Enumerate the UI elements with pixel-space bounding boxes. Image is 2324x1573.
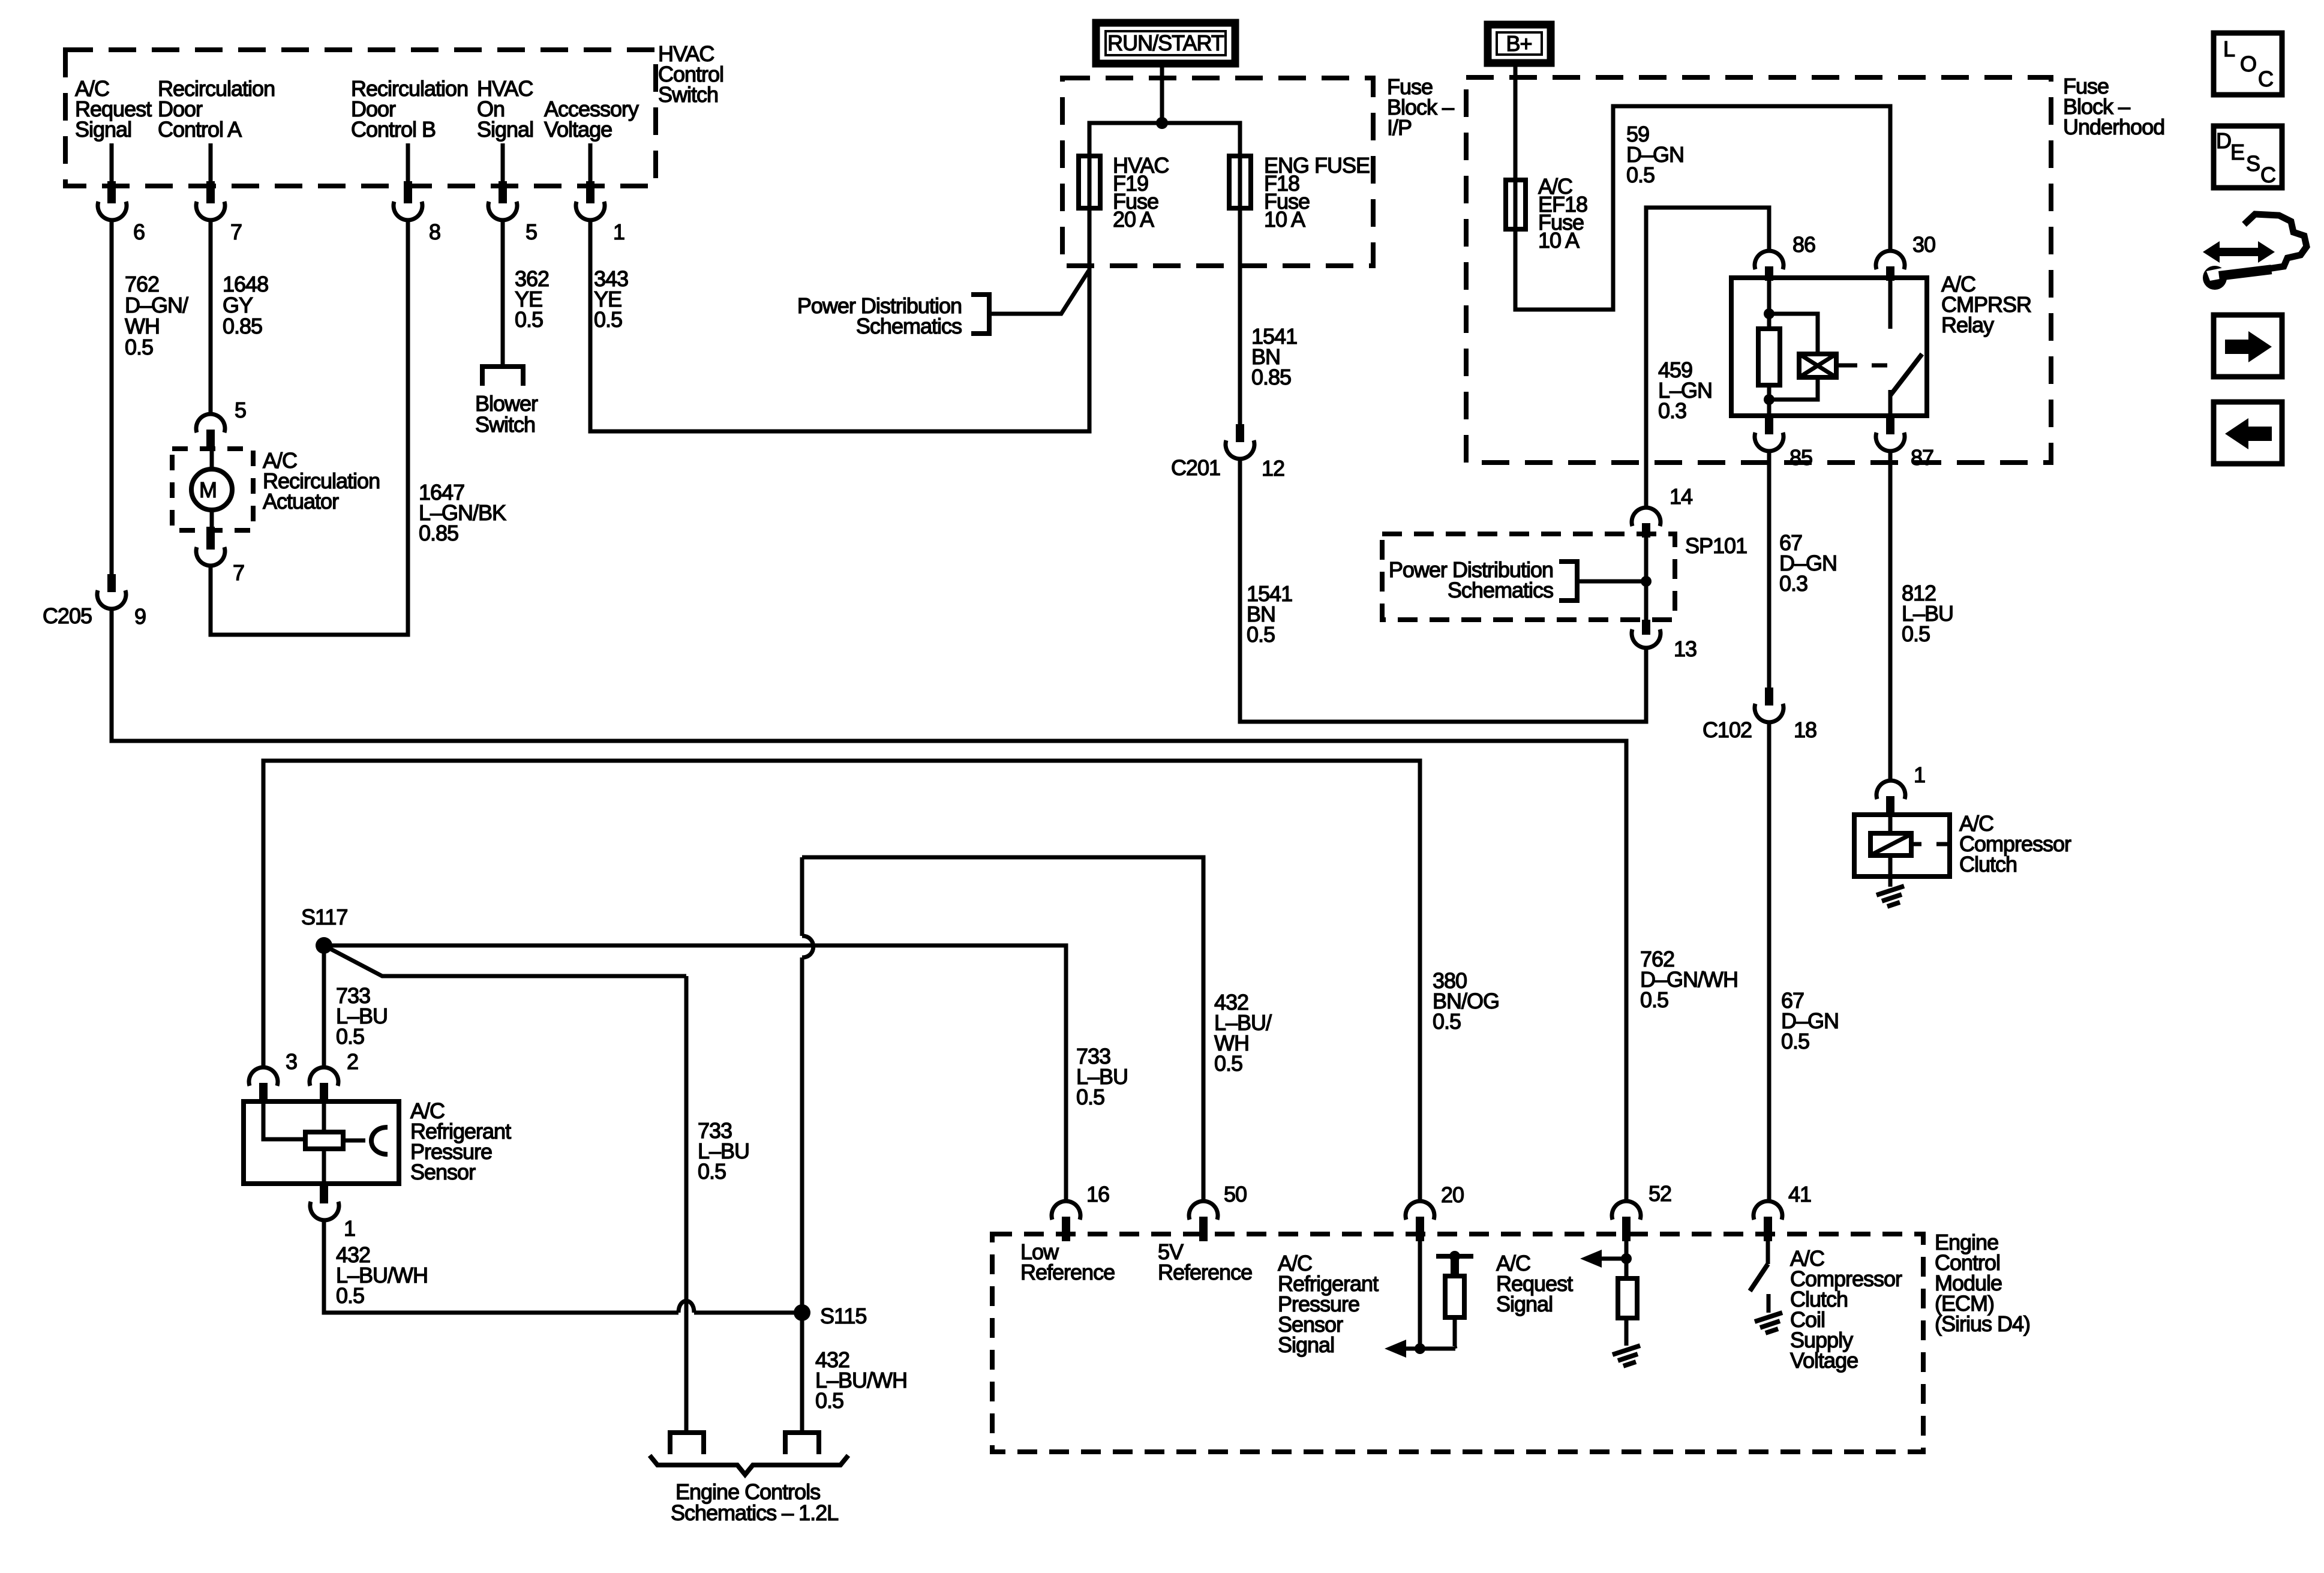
relay solenoid branch wires xyxy=(1769,314,1818,354)
sensor pressure port arc xyxy=(371,1127,388,1154)
svg-text:6: 6 xyxy=(133,220,145,244)
wire fuse feed bus xyxy=(1089,123,1240,156)
svg-text:C201: C201 xyxy=(1171,455,1220,480)
Fuse Block I/P dashed box xyxy=(1062,78,1373,266)
wire SP101 pin 14 xyxy=(1644,450,1649,507)
svg-text:7: 7 xyxy=(230,220,242,244)
SP101 dashed box xyxy=(1382,534,1675,620)
svg-text:1: 1 xyxy=(1914,763,1925,787)
svg-text:Voltage: Voltage xyxy=(1790,1348,1858,1373)
Fuse Block Underhood dashed box xyxy=(1466,77,2051,463)
svg-text:B+: B+ xyxy=(1506,31,1532,56)
wire 67 C102 to ECM pin 41 xyxy=(1767,721,1771,1200)
A/C Recirculation Actuator dashed box xyxy=(172,449,253,530)
svg-text:18: 18 xyxy=(1794,718,1816,742)
wire ENG FUSE F18 to C201 xyxy=(1238,208,1242,424)
svg-text:0.3: 0.3 xyxy=(1658,398,1686,423)
relay switch blade xyxy=(1890,354,1922,395)
ground clutch xyxy=(1876,886,1904,895)
svg-text:Reference: Reference xyxy=(1020,1260,1115,1284)
svg-text:0.5: 0.5 xyxy=(1781,1029,1809,1053)
connector relay pin 30 xyxy=(1876,251,1905,269)
svg-text:Control A: Control A xyxy=(158,117,242,142)
connector pin 8 xyxy=(404,181,412,203)
relay switch contact xyxy=(1888,278,1893,329)
svg-text:Relay: Relay xyxy=(1941,313,1994,337)
svg-text:0.5: 0.5 xyxy=(594,307,622,332)
node S117 splice xyxy=(316,937,332,954)
wire 432 sensor pin1 to S115 with hop xyxy=(324,1220,678,1313)
wire clutch to ground xyxy=(1888,855,1893,887)
connector ECM pin 41 xyxy=(1753,1201,1782,1220)
wire pin 6 inside switch xyxy=(110,143,114,182)
svg-text:0.5: 0.5 xyxy=(1902,622,1930,646)
svg-text:87: 87 xyxy=(1911,445,1933,470)
svg-text:RUN/START: RUN/START xyxy=(1107,31,1224,55)
svg-text:0.5: 0.5 xyxy=(1076,1085,1104,1109)
svg-text:9: 9 xyxy=(134,604,146,629)
fuse A/C EF18 10A xyxy=(1506,180,1526,229)
wire 362 pin5 to blower switch xyxy=(501,220,505,367)
connector sensor pin 1 xyxy=(320,1184,328,1203)
node S115 splice xyxy=(794,1304,810,1321)
wire RUN/START feed xyxy=(1160,66,1164,123)
svg-text:Switch: Switch xyxy=(658,82,718,107)
connector pin 7 xyxy=(206,181,215,203)
svg-text:1: 1 xyxy=(344,1216,355,1241)
wire 733 down to engine controls xyxy=(684,976,689,1433)
connector clutch pin 1 xyxy=(1876,781,1905,799)
svg-text:0.5: 0.5 xyxy=(515,307,543,332)
svg-text:86: 86 xyxy=(1792,232,1815,257)
svg-text:20: 20 xyxy=(1441,1182,1464,1207)
svg-text:0.5: 0.5 xyxy=(1640,987,1668,1012)
svg-text:7: 7 xyxy=(233,560,244,585)
ECM pin 41 internal switch xyxy=(1766,1241,1770,1264)
svg-text:5: 5 xyxy=(526,220,537,244)
svg-text:Control B: Control B xyxy=(351,117,436,142)
svg-text:50: 50 xyxy=(1224,1182,1247,1206)
engine controls terminal right xyxy=(783,1430,821,1435)
connector pin 1 xyxy=(586,181,594,203)
connector C102 pin 18 xyxy=(1765,688,1773,706)
wire 1648 pin7 to actuator xyxy=(209,220,213,415)
svg-text:S117: S117 xyxy=(301,905,347,929)
connector C205 pin 9 xyxy=(107,574,116,592)
connector ECM pin 20 xyxy=(1406,1201,1434,1220)
svg-text:Schematics – 1.2L: Schematics – 1.2L xyxy=(671,1500,838,1525)
A/C Compressor Clutch box xyxy=(1854,815,1950,876)
engine controls terminal left xyxy=(668,1430,706,1435)
wire 762 below C205 to ECM pin 52 bus xyxy=(112,607,1626,1200)
svg-text:Signal: Signal xyxy=(1496,1292,1553,1316)
svg-text:0.5: 0.5 xyxy=(125,335,153,359)
HVAC Control Switch dashed box xyxy=(65,50,656,186)
wire pin 8 inside switch xyxy=(406,143,410,182)
relay solenoid core box with X xyxy=(1799,354,1836,377)
svg-text:10 A: 10 A xyxy=(1264,207,1305,232)
sensor internal wires xyxy=(263,1101,305,1139)
svg-text:0.5: 0.5 xyxy=(698,1159,726,1184)
node relay coil bottom junction xyxy=(1764,394,1774,405)
wire 380 sensor signal bus xyxy=(263,761,1420,1200)
svg-text:12: 12 xyxy=(1262,456,1284,481)
wire 1647 pin8 down right to actuator pin7 xyxy=(211,220,408,635)
relay box A/C CMPRSR Relay xyxy=(1731,278,1927,416)
svg-text:Underhood: Underhood xyxy=(2063,115,2164,139)
icon LOC box xyxy=(2214,33,2282,95)
brace engine controls xyxy=(650,1455,848,1475)
connector ECM pin 50 xyxy=(1189,1201,1218,1220)
svg-text:(Sirius D4): (Sirius D4) xyxy=(1935,1311,2030,1336)
svg-text:10 A: 10 A xyxy=(1538,228,1580,253)
fuse F18 ENG FUSE 10A xyxy=(1229,156,1251,208)
svg-text:Schematics: Schematics xyxy=(1448,578,1553,602)
connector pin 5 xyxy=(499,181,507,203)
wire SP101 internal xyxy=(1644,538,1649,620)
svg-text:Signal: Signal xyxy=(1278,1332,1334,1357)
svg-text:C205: C205 xyxy=(43,604,92,628)
connector actuator pin 7 xyxy=(206,527,215,550)
A/C Refrigerant Pressure Sensor box xyxy=(244,1101,399,1184)
wire relay coil top xyxy=(1767,278,1771,329)
connector ECM pin 52 xyxy=(1612,1201,1641,1220)
resistor relay coil xyxy=(1758,329,1780,385)
svg-text:C: C xyxy=(2260,163,2275,187)
svg-text:D: D xyxy=(2216,128,2231,153)
connector relay pin 86 xyxy=(1755,251,1783,269)
clutch coil symbol xyxy=(1888,815,1893,833)
svg-text:0.5: 0.5 xyxy=(1247,622,1275,647)
svg-text:Signal: Signal xyxy=(477,117,533,142)
ECM pin 52 internal circuit xyxy=(1625,1241,1629,1278)
B+ box xyxy=(1488,25,1551,63)
svg-text:Clutch: Clutch xyxy=(1959,852,2017,876)
ECM dashed box xyxy=(992,1234,1923,1452)
svg-text:Sensor: Sensor xyxy=(410,1160,476,1184)
svg-text:M: M xyxy=(199,478,217,502)
relay actuating dashes xyxy=(1836,364,1857,368)
svg-text:0.5: 0.5 xyxy=(336,1024,364,1049)
wire 812 relay 87 to clutch xyxy=(1888,451,1893,781)
ground ECM pin 52 xyxy=(1613,1346,1640,1355)
svg-text:0.5: 0.5 xyxy=(1433,1009,1461,1034)
icon forward arrow box xyxy=(2214,315,2282,377)
svg-text:S: S xyxy=(2246,151,2260,176)
connector C201 pin 12 xyxy=(1236,424,1244,442)
bracket power distribution right xyxy=(1559,562,1577,601)
svg-text:Reference: Reference xyxy=(1158,1260,1252,1284)
wire 343 accessory voltage to fuse F19 xyxy=(590,208,1089,431)
icon wrench and arrow xyxy=(2203,214,2307,290)
ECM pin 20 internal circuit xyxy=(1418,1241,1422,1349)
svg-text:3: 3 xyxy=(286,1049,297,1074)
svg-text:0.5: 0.5 xyxy=(336,1283,364,1308)
svg-text:E: E xyxy=(2230,140,2244,164)
svg-text:L: L xyxy=(2223,37,2235,61)
wire relay coil bottom xyxy=(1767,385,1771,416)
svg-text:41: 41 xyxy=(1788,1182,1811,1206)
svg-text:0.5: 0.5 xyxy=(1626,163,1655,187)
wire 733 S117 to ECM pin 16 xyxy=(324,945,1066,1200)
svg-text:16: 16 xyxy=(1086,1182,1109,1206)
svg-text:S115: S115 xyxy=(820,1304,866,1328)
bracket power distribution left xyxy=(971,295,989,334)
ground ECM pin 41 xyxy=(1755,1313,1782,1322)
svg-text:Switch: Switch xyxy=(475,412,535,437)
icon DESC box xyxy=(2214,126,2282,188)
svg-text:0.85: 0.85 xyxy=(1251,365,1291,389)
svg-text:Signal: Signal xyxy=(75,117,131,142)
connector actuator pin 5 xyxy=(196,414,225,433)
svg-text:0.85: 0.85 xyxy=(419,521,458,545)
connector pin 6 xyxy=(107,181,116,203)
node relay coil top junction xyxy=(1764,308,1774,319)
svg-text:C102: C102 xyxy=(1703,718,1752,742)
svg-text:5: 5 xyxy=(235,398,246,422)
wire 733 S117 to sensor pin 2 xyxy=(322,945,326,1068)
wire 1541 C201 to SP101 xyxy=(1240,457,1646,722)
svg-text:0.3: 0.3 xyxy=(1779,571,1807,596)
svg-text:0.5: 0.5 xyxy=(815,1388,843,1413)
wire pin 1 inside switch xyxy=(588,143,593,182)
node ignition junction xyxy=(1156,117,1168,129)
svg-text:I/P: I/P xyxy=(1387,115,1412,140)
svg-text:1: 1 xyxy=(613,220,624,244)
icon back arrow box xyxy=(2214,402,2282,464)
node SP101 junction xyxy=(1641,576,1652,587)
wire pin 5 inside switch xyxy=(501,143,505,182)
wire 432 to ECM pin 50 xyxy=(802,857,1203,1200)
connector sensor pin 2 xyxy=(310,1067,338,1086)
wire 432 vertical with hop over 733 line xyxy=(800,857,804,936)
svg-text:O: O xyxy=(2240,52,2256,76)
svg-text:20 A: 20 A xyxy=(1113,207,1154,232)
svg-text:85: 85 xyxy=(1789,445,1812,470)
svg-text:SP101: SP101 xyxy=(1685,533,1747,558)
fuse F19 HVAC 20A xyxy=(1079,156,1100,208)
svg-text:0.85: 0.85 xyxy=(223,314,262,338)
svg-text:13: 13 xyxy=(1674,637,1697,661)
connector ECM pin 16 xyxy=(1052,1201,1080,1220)
connector sensor pin 3 xyxy=(249,1067,278,1086)
wire pin 7 inside switch xyxy=(209,143,213,182)
svg-text:Voltage: Voltage xyxy=(544,117,612,142)
wire B+ to EF18 fuse xyxy=(1514,66,1518,180)
connector relay pin 85 xyxy=(1765,416,1773,434)
wire 459 relay 86 feed xyxy=(1646,208,1769,463)
motor M circle xyxy=(191,469,232,510)
wire 59 D-GN EF18 to relay 30 xyxy=(1515,106,1890,310)
svg-text:8: 8 xyxy=(429,220,440,244)
svg-text:14: 14 xyxy=(1670,484,1692,509)
wire 762 pin6 to C205 xyxy=(110,220,114,574)
wire 733 S117 diagonal branch xyxy=(324,945,686,976)
svg-text:Schematics: Schematics xyxy=(856,314,962,338)
resistor sensor element xyxy=(305,1132,343,1149)
svg-text:C: C xyxy=(2258,67,2273,91)
svg-text:2: 2 xyxy=(347,1049,358,1074)
svg-text:Actuator: Actuator xyxy=(263,489,339,514)
connector relay pin 87 xyxy=(1886,416,1894,434)
svg-text:30: 30 xyxy=(1912,232,1935,257)
svg-text:52: 52 xyxy=(1649,1181,1671,1206)
RUN/START box xyxy=(1096,23,1235,64)
wire 67 relay 85 to C102 xyxy=(1767,451,1771,688)
blower switch fork xyxy=(482,367,523,386)
svg-text:0.5: 0.5 xyxy=(1214,1051,1242,1076)
connector SP101 pin 14 xyxy=(1632,508,1661,526)
connector SP101 pin 13 xyxy=(1642,620,1650,635)
